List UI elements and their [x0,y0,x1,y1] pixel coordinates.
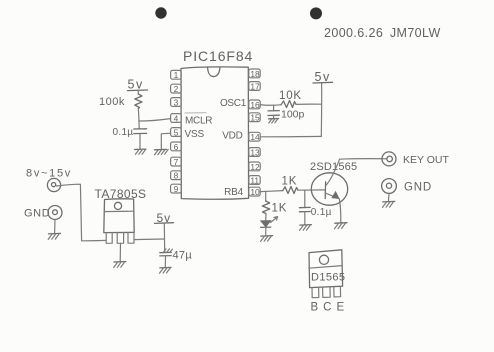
svg-text:GND: GND [24,208,50,220]
svg-text:3: 3 [174,97,179,107]
regulator body [104,199,134,233]
pin 2 [171,84,182,94]
pin 11 [249,175,260,185]
ground below emitter [335,223,348,229]
ground below 0.1u [135,149,146,154]
capacitor C 0.1u plates [134,128,147,130]
svg-text:0.1µ: 0.1µ [311,207,332,218]
LED arrow [271,217,278,223]
svg-text:1K: 1K [272,203,288,215]
pin 3 [171,97,182,107]
wire pin10 RB4 out [260,191,283,192]
regulator leg 3 [128,233,134,244]
svg-text:2: 2 [174,84,179,94]
svg-text:14: 14 [250,132,260,142]
svg-text:1K: 1K [282,176,298,188]
ground below VSS [155,149,169,154]
regulator divider [104,210,134,212]
pin 16 [249,100,260,110]
pin 14 [249,132,260,142]
svg-text:47µ: 47µ [173,250,193,262]
svg-text:15: 15 [250,113,260,123]
wire VSS pin5 to ground [161,133,170,149]
terminal KEY OUT jack [382,152,396,166]
resistor R 100k zigzag [135,94,142,109]
svg-text:5: 5 [174,127,179,137]
capacitor C 0.1u (emitter) plates [299,206,310,208]
pin 6 [171,142,182,152]
LED D1 triangle [261,221,271,227]
capacitor C 47u plates [160,249,173,256]
pin 13 [249,147,260,157]
ground below regulator [114,262,126,268]
svg-text:8: 8 [174,171,179,181]
wire R100k to cap node [137,109,140,129]
ground below 47u [160,267,172,273]
svg-text:9: 9 [174,184,179,194]
node junction to vertical 1K [265,191,267,201]
ground below 100p [269,116,279,124]
wire leg2 to ground [119,243,121,261]
wire pin16 to R 10k [260,104,281,107]
svg-text:MCLR: MCLR [185,116,212,127]
svg-text:RB4: RB4 [224,187,243,198]
wire collector to KEY OUT [340,158,387,161]
svg-text:6: 6 [174,142,179,152]
wire input to regulator [57,184,107,241]
svg-text:VDD: VDD [222,131,242,142]
svg-text:BCE: BCE [311,302,350,314]
resistor R 10k zigzag [281,101,296,108]
package divider [309,266,342,269]
wire R1K to base [298,189,325,191]
registration dot left [155,7,166,18]
capacitor C 100p plates [268,110,279,112]
pin 15 [249,113,260,123]
wire R1K to LED [265,214,267,221]
IC U1 body [181,67,249,199]
package leg B [312,287,319,297]
ground below left jack [48,233,60,239]
wire node to pin 4 MCLR [139,119,171,121]
capacitor C 100p stub [273,105,275,111]
transistor base bar [324,182,326,199]
pin 7 [171,157,182,167]
transistor emitter with arrow [325,191,339,199]
svg-text:5v: 5v [128,77,144,91]
ground below LED [261,236,273,242]
svg-text:2000.6.26 JM70LW: 2000.6.26 JM70LW [324,26,441,40]
svg-text:8v~15v: 8v~15v [26,168,72,180]
wire cap to ground [139,134,141,150]
svg-text:7: 7 [174,157,179,167]
resistor R 1K vertical [262,201,269,214]
wire pin14 VDD to 5v rail [260,135,321,137]
svg-text:17: 17 [250,81,260,91]
wire 5v to R 100k [137,91,139,94]
svg-text:10: 10 [250,187,260,197]
wire leg3 to 5v node [134,238,164,241]
label MCLR with overline [185,113,212,127]
transistor Q1 circle [311,173,347,205]
svg-text:11: 11 [250,175,259,185]
pin 10 [249,187,260,197]
svg-text:D1565: D1565 [311,272,345,284]
regulator hole [114,202,121,209]
svg-text:2SD1565: 2SD1565 [310,161,357,173]
svg-text:10K: 10K [279,90,302,102]
svg-text:VSS: VSS [185,129,205,140]
terminal GND jack left [48,206,62,220]
svg-text:OSC1: OSC1 [220,98,247,109]
svg-text:13: 13 [250,147,260,157]
pin 5 [171,127,182,137]
wire gnd jack right down [387,193,390,201]
svg-text:KEY OUT: KEY OUT [403,154,449,166]
ground below right jack [383,201,395,207]
pin 17 [249,81,260,91]
svg-text:100k: 100k [99,96,125,108]
wire LED to ground [265,227,267,235]
5V label top-left [128,77,148,91]
pin 1 [171,70,182,80]
registration dot right [310,7,322,19]
svg-text:GND: GND [404,182,432,194]
node junction to 0.1u [304,190,306,207]
pin 18 [249,69,260,79]
wire emitter to ground [339,199,341,223]
svg-text:16: 16 [250,100,260,110]
LED cathode bar [261,226,271,228]
wire 47u to ground [164,256,166,268]
resistor R 1K horizontal [283,187,298,194]
ground below 0.1u [300,225,312,231]
wire gnd jack down [54,220,56,234]
terminal input jack [47,178,60,191]
5V label mid [155,211,174,225]
svg-text:100p: 100p [281,109,305,121]
svg-text:12: 12 [250,162,260,172]
5V label top-right [313,70,333,84]
regulator leg 1 [106,233,112,244]
package leg E [334,287,341,297]
package hole [319,255,328,264]
regulator leg 2 [117,233,123,244]
pin 12 [249,162,260,172]
pin 4 [171,113,182,123]
5v rail vertical top-right [320,83,322,137]
wire R10k to 5v rail [296,103,321,105]
package drawing D1565 body [309,250,343,288]
transistor collector [326,159,340,186]
package leg C [323,287,331,297]
pin 9 [171,184,182,194]
terminal GND jack right [382,179,397,194]
svg-text:PIC16F84: PIC16F84 [183,48,253,64]
IC notch [208,67,221,77]
svg-text:0.1µ: 0.1µ [113,127,134,138]
svg-text:1: 1 [174,70,179,80]
pin 8 [171,171,182,181]
wire 5v bar down through node to cap [163,223,165,252]
svg-text:4: 4 [174,113,179,123]
wire 0.1u to ground [304,212,306,225]
svg-text:18: 18 [250,69,260,79]
